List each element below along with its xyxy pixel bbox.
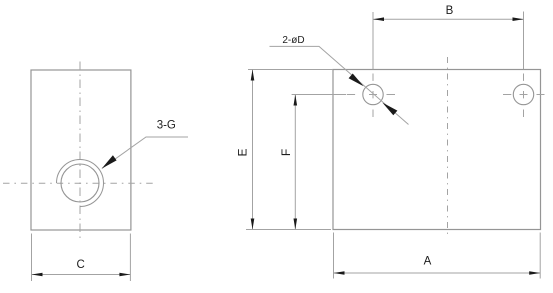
leader 2-oD arrowhead upper xyxy=(349,74,364,87)
leader 2-oD xyxy=(270,46,409,124)
block outline (side view) xyxy=(31,70,131,230)
dimension A : dimension line xyxy=(334,272,541,274)
vertical centerline xyxy=(79,62,81,242)
dimension C : extension lines xyxy=(31,234,33,282)
dimension A : extension lines xyxy=(333,233,335,279)
dimension C : dimension line xyxy=(32,274,131,276)
dimension B : dimension line xyxy=(373,18,524,20)
hole D left : vertical centerline xyxy=(372,74,374,118)
dimension C : arrowheads xyxy=(32,273,43,277)
hole D right : vertical centerline xyxy=(523,74,525,118)
dimension F : dimension line xyxy=(294,95,296,230)
leader 3-G xyxy=(102,137,188,169)
leader 3-G arrowhead xyxy=(102,155,117,168)
svg-text:F: F xyxy=(279,149,293,156)
dimension F : extension line top xyxy=(292,94,346,96)
dimension E : dimension line xyxy=(252,70,254,230)
svg-text:E: E xyxy=(236,148,250,156)
dimension E : arrowheads xyxy=(251,70,255,81)
dimension F : arrowheads xyxy=(294,95,298,106)
hole D left : horizontal centerline xyxy=(347,94,395,96)
block outline (front view) xyxy=(333,70,541,230)
vertical centerline between holes xyxy=(447,57,449,237)
hole D right : circle xyxy=(513,84,533,104)
threaded hole G : outer thread arc (270deg, gap at SW) xyxy=(57,159,104,206)
hole D right : horizontal centerline xyxy=(503,94,545,96)
svg-text:2-øD: 2-øD xyxy=(282,35,304,46)
hole D left : circle xyxy=(363,84,383,104)
dimension B : arrowheads xyxy=(373,17,384,21)
svg-text:C: C xyxy=(76,259,84,271)
dimension E : extension lines xyxy=(248,69,333,71)
dimension B : extension lines xyxy=(372,12,374,69)
dimension A : arrowheads xyxy=(334,271,345,275)
svg-text:3-G: 3-G xyxy=(157,120,176,132)
horizontal centerline xyxy=(3,182,156,184)
svg-text:B: B xyxy=(446,5,454,17)
threaded hole G : inner circle xyxy=(61,164,99,202)
svg-text:A: A xyxy=(424,255,432,267)
leader 2-oD arrowhead lower xyxy=(382,103,397,116)
